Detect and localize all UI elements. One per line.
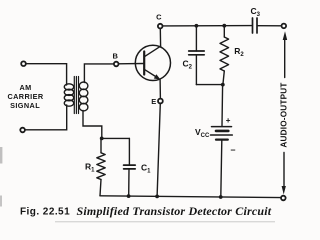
transformer T1 core [74,77,78,114]
resistor R1 [97,138,105,195]
wire input-top to transformer primary [26,64,67,85]
wire node B to transistor base [119,63,145,65]
svg-text:R1: R1 [85,161,95,173]
audio output arrow up [283,31,288,77]
svg-text:E: E [151,97,156,106]
wire junction to battery top [221,85,224,126]
scan smudge left edge lower [0,196,2,207]
node B terminal [114,62,119,67]
svg-text:AM: AM [20,83,32,92]
junction dot R2/C2 bottom [221,83,225,87]
svg-text:Fig. 22.51: Fig. 22.51 [20,207,70,218]
label AM CARRIER SIGNAL [7,83,43,110]
junction dot battery to bottom rail [219,195,223,199]
svg-text:CARRIER: CARRIER [7,92,43,101]
bottom rail wire [100,196,281,198]
wire C2 bottom to R2 bottom junction [196,84,222,86]
output terminal top [282,24,287,29]
svg-text:C3: C3 [251,6,261,18]
capacitor C1 [124,138,136,196]
audio output arrow down [282,153,286,195]
wire node A to C1 top [102,137,130,139]
svg-text:AUDIO-OUTPUT: AUDIO-OUTPUT [280,82,289,147]
transformer T1 secondary winding [79,82,88,111]
node C terminal [158,24,163,29]
wire secondary top to node B [84,64,114,83]
node E terminal [158,99,163,104]
scan smudge left edge upper [0,147,2,164]
battery VCC [211,127,233,197]
wire emitter to node E [159,80,161,99]
input terminal top [21,61,26,66]
wire collector to node C [159,28,161,46]
capacitor C3 [253,18,282,33]
svg-text:C: C [156,13,162,22]
svg-text:C2: C2 [183,59,193,71]
wire secondary bottom to node A junction [83,111,102,139]
svg-text:+: + [226,116,231,125]
junction dot C2 tap [195,24,199,28]
junction dot emitter bottom [155,195,159,199]
wire node E to bottom rail [157,104,160,197]
transformer T1 primary winding [64,84,73,106]
output terminal bottom [281,196,286,201]
resistor R2 [220,26,229,85]
input terminal bottom [20,128,25,133]
svg-text:C1: C1 [141,162,151,174]
svg-text:Simplified Transistor Detector: Simplified Transistor Detector Circuit [77,204,272,218]
junction dot R2 tap [222,24,226,28]
caption rule (faint) [55,221,275,223]
svg-text:VCC: VCC [195,127,210,139]
capacitor C2 [189,26,205,85]
svg-text:–: – [231,145,236,155]
svg-text:R2: R2 [234,46,244,58]
wire input-bottom to transformer primary [25,105,67,130]
junction dot C1 bottom [127,194,131,198]
svg-text:SIGNAL: SIGNAL [10,101,40,110]
transistor Q1 [135,45,170,80]
top rail wire node C to C3 [163,25,253,27]
svg-text:B: B [112,52,118,61]
junction dot node A (R1/C1 top) [100,137,104,141]
